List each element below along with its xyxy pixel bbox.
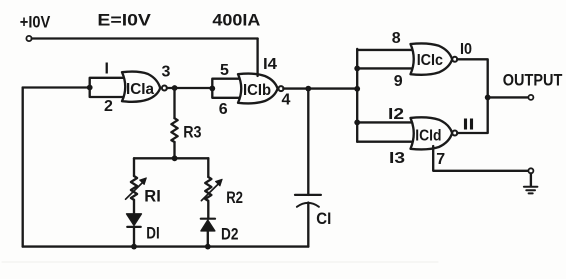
svg-text:ICIc: ICIc <box>417 52 443 69</box>
label R2 <box>226 188 243 207</box>
IC1a output bubble <box>162 86 167 91</box>
wire input bus IC1c/IC1d <box>356 49 358 142</box>
gate label IC1d <box>415 128 441 145</box>
label OUTPUT <box>503 71 563 90</box>
node pin 3 / R3 junction <box>172 85 178 91</box>
wire bottom rail <box>23 245 309 247</box>
node R3 / T junction <box>172 155 178 161</box>
wire IC1c output <box>457 59 488 97</box>
wire IC1b output to gate bus <box>283 87 357 89</box>
svg-text:D2: D2 <box>221 225 238 244</box>
pin 6 label <box>219 101 228 118</box>
+10V supply terminal <box>26 36 31 41</box>
wire R2 upper lead <box>207 158 209 177</box>
pin 1 label <box>105 60 109 77</box>
label D1 <box>146 224 159 243</box>
svg-text:DI: DI <box>146 224 159 243</box>
svg-text:I3: I3 <box>389 150 405 167</box>
scan artifact line <box>2 261 438 263</box>
node D1 bottom junction <box>131 244 137 250</box>
svg-text:2: 2 <box>104 98 113 115</box>
svg-text:ICId: ICId <box>415 128 441 145</box>
svg-text:4: 4 <box>282 91 291 108</box>
diode D1 <box>127 214 142 227</box>
gate label IC1b <box>243 82 271 99</box>
label C1 <box>316 209 331 228</box>
svg-text:R3: R3 <box>183 123 201 142</box>
pin 2 label <box>104 98 113 115</box>
pin 14 label <box>263 56 277 73</box>
ground terminal circle <box>528 168 533 173</box>
pin 11 label <box>463 117 475 134</box>
NOR gate IC1b body <box>238 74 278 104</box>
R2 wiper arrow <box>201 179 222 200</box>
wire D1 to bottom rail <box>133 227 135 247</box>
label E=10V <box>97 11 151 30</box>
wire C1 lower lead <box>307 203 309 247</box>
svg-text:6: 6 <box>219 101 228 118</box>
node IC1b input junction <box>209 86 215 92</box>
wire to output terminal <box>488 96 529 98</box>
wire IC1a input feed <box>23 86 90 88</box>
wire C1 upper lead <box>307 89 309 195</box>
pin 5 label <box>220 62 229 79</box>
wire T branch to R1 and R2 <box>134 157 208 159</box>
diode D2 <box>201 219 215 231</box>
resistor R2 (variable) <box>205 177 211 201</box>
IC1c output bubble <box>452 57 457 62</box>
wire pin 14 stub <box>256 39 258 77</box>
label D2 <box>221 225 238 244</box>
label R3 <box>183 123 201 142</box>
svg-text:+I0V: +I0V <box>20 13 51 32</box>
pin 12 label <box>388 106 404 123</box>
gate label IC1c <box>417 52 443 69</box>
wire pin 7 to ground <box>433 146 528 171</box>
wire pin 13 <box>357 141 411 143</box>
resistor R3 <box>171 118 177 142</box>
svg-text:OUTPUT: OUTPUT <box>503 71 563 90</box>
svg-text:I4: I4 <box>263 56 277 73</box>
wire R3 lower lead <box>173 142 175 158</box>
wire R2 to D2 <box>207 202 209 219</box>
pin 8 label <box>392 30 401 47</box>
wire R1 to D1 <box>133 200 135 214</box>
svg-text:400IA: 400IA <box>212 11 260 30</box>
label 4001A <box>212 11 260 30</box>
svg-text:3: 3 <box>162 64 171 81</box>
wire IC1a input tie box <box>90 78 123 97</box>
R1 wiper arrow <box>126 178 147 199</box>
svg-text:ICIa: ICIa <box>126 81 154 98</box>
ground symbol <box>524 187 538 194</box>
label +10V <box>20 13 51 32</box>
NOR gate IC1d body <box>411 117 453 149</box>
IC1d output bubble <box>452 131 457 136</box>
pin 4 label <box>282 91 291 108</box>
gate label IC1a <box>126 81 154 98</box>
NOR gate IC1c body <box>411 43 453 74</box>
resistor R1 (variable) <box>131 176 137 200</box>
pin 9 label <box>394 73 403 90</box>
wire D2 to bottom rail <box>207 231 209 247</box>
svg-text:8: 8 <box>392 30 401 47</box>
wire pin 9 <box>357 67 411 69</box>
wire ground stub <box>530 173 532 186</box>
pin 13 label <box>389 150 405 167</box>
IC1b output bubble <box>279 86 284 91</box>
wire R1 upper lead <box>133 158 135 176</box>
node pin 9 junction <box>354 66 360 72</box>
wire IC1a output to IC1b input <box>167 87 213 89</box>
NOR gate IC1a body <box>122 72 160 102</box>
node IC1a input junction <box>87 85 93 91</box>
output terminal <box>528 95 533 100</box>
svg-text:CI: CI <box>316 209 331 228</box>
wire +10V rail to pin 14 corner <box>32 37 258 39</box>
capacitor C1 <box>295 195 321 207</box>
svg-text:9: 9 <box>394 73 403 90</box>
svg-text:E=I0V: E=I0V <box>97 11 151 30</box>
pin 10 label <box>460 41 472 58</box>
wire IC1d output <box>457 97 488 133</box>
node C1 tap junction <box>305 86 311 92</box>
svg-text:RI: RI <box>144 187 161 206</box>
svg-text:I2: I2 <box>388 106 404 123</box>
wire left feedback rail <box>22 88 24 247</box>
svg-text:7: 7 <box>436 151 445 168</box>
wire pin 12 <box>357 121 411 123</box>
wire IC1b input tie box <box>212 79 239 98</box>
node bus feed junction <box>354 86 360 92</box>
pin 3 label <box>162 64 171 81</box>
svg-text:I0: I0 <box>460 41 472 58</box>
svg-text:ICIb: ICIb <box>243 82 271 99</box>
svg-text:I: I <box>105 60 109 77</box>
wire R3 upper lead <box>173 88 175 118</box>
svg-text:R2: R2 <box>226 188 243 207</box>
svg-text:5: 5 <box>220 62 229 79</box>
node pin 12 junction <box>354 120 360 126</box>
node D2 bottom junction <box>205 244 211 250</box>
wire pin 8 <box>357 49 411 51</box>
pin 7 label <box>436 151 445 168</box>
svg-text:II: II <box>463 117 475 134</box>
node output junction <box>485 95 491 101</box>
label R1 <box>144 187 161 206</box>
